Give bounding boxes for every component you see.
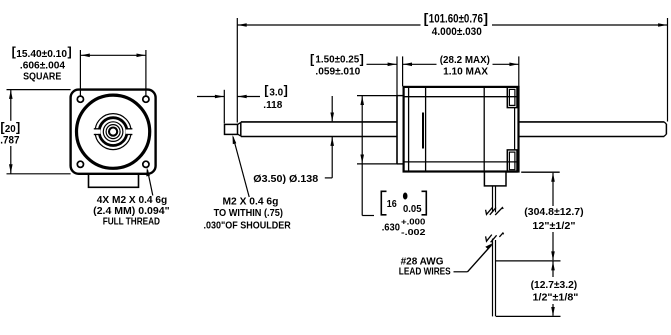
dim 20 extension line top [7, 89, 71, 91]
break mark upper right [495, 208, 503, 215]
svg-text:]: ] [360, 52, 364, 66]
dim 28.2 line left seg [403, 63, 437, 65]
svg-text:.787: .787 [0, 135, 19, 147]
lead wire right lower [495, 240, 497, 316]
dim 3.0 arrow line right [237, 96, 260, 98]
svg-text:M2 X 0.4 6g: M2 X 0.4 6g [223, 197, 279, 208]
wire end ref line [496, 315, 561, 317]
rear shaft chamfer top [664, 122, 666, 124]
svg-text:4.000±.030: 4.000±.030 [432, 26, 482, 38]
rear cover line [514, 108, 516, 150]
screw shoulder [240, 122, 242, 136]
dim dia16 extension bottom [357, 163, 397, 165]
bearing ring bold [99, 118, 127, 146]
ring gap right mask [126, 130, 133, 134]
dim 20 line [10, 90, 12, 121]
svg-text:FULL THREAD: FULL THREAD [103, 217, 160, 228]
lead wire right upper [495, 186, 497, 212]
svg-text:16: 16 [387, 199, 397, 210]
break mark lower left [486, 235, 492, 242]
front plate line [408, 87, 410, 172]
dim dia3.5 lower line [331, 137, 333, 178]
dim 3.0 extension left [223, 90, 225, 124]
gap tick right bottom [126, 134, 132, 136]
dim 12.7 line upper [552, 262, 554, 278]
tip shoulder chamfer bottom [238, 134, 241, 136]
dim 101.6 arrow right [658, 23, 667, 27]
pilot boss face [396, 96, 398, 164]
lead screw top edge [241, 121, 397, 123]
dim 1.50 extension mount face [402, 56, 404, 86]
rear block top outer [507, 87, 517, 107]
dim 304.8 arrow up [551, 173, 555, 182]
svg-text:]: ] [284, 83, 288, 97]
dim 28.2 line right seg [493, 63, 519, 65]
pilot boss top [397, 95, 404, 97]
svg-text:#28 AWG: #28 AWG [401, 256, 444, 267]
svg-text:20: 20 [5, 124, 16, 135]
break mark upper left [486, 208, 493, 215]
dim 15.40 extension line left [79, 50, 81, 96]
leader lead wires arrowhead [485, 243, 493, 249]
rear block bottom inner [509, 152, 515, 170]
rear shaft bottom edge [519, 136, 665, 138]
svg-text:]: ] [16, 121, 20, 135]
svg-text:]: ] [483, 10, 488, 26]
svg-text:]: ] [68, 45, 72, 59]
dim 1.50 extension boss face [396, 56, 398, 95]
pilot boss bottom [397, 163, 404, 165]
rear shaft end [665, 124, 667, 134]
mounting hole top-left [77, 96, 83, 102]
svg-text:SQUARE: SQUARE [23, 71, 61, 82]
leader lead wires diagonal [468, 245, 492, 272]
svg-text:4X M2 X 0.4 6g: 4X M2 X 0.4 6g [97, 195, 167, 206]
dim 12.7 arrow down [551, 307, 555, 316]
gap tick right top [126, 128, 132, 130]
svg-text:1/2"±1/8": 1/2"±1/8" [533, 292, 579, 303]
svg-text:.030"OF SHOULDER: .030"OF SHOULDER [204, 220, 292, 231]
dim 15.40 arrow left [81, 54, 90, 58]
dim 28.2 arrow left [403, 63, 412, 67]
gap tick left top [94, 128, 100, 130]
dim 3.0 arrow head left [215, 95, 224, 99]
svg-text:(2.4 MM) 0.094": (2.4 MM) 0.094" [93, 206, 170, 217]
dim 1.50 arrow head [388, 63, 397, 67]
svg-text:.630: .630 [382, 222, 401, 233]
rear block top inner [509, 89, 515, 105]
dim 20 arrow bottom [9, 164, 13, 173]
svg-text:+.000: +.000 [401, 217, 426, 227]
rear block bottom outer [507, 150, 517, 172]
dim 20 extension line bottom [7, 173, 71, 175]
lead screw bottom edge [241, 136, 397, 138]
flange boundary line [425, 87, 427, 172]
leader lead wires horizontal [454, 271, 468, 273]
dim dia3.5 upper line [331, 96, 333, 121]
dim 101.6 arrow left [238, 23, 247, 27]
break mark lower right [499, 233, 503, 237]
lead wire left lower [492, 239, 494, 317]
svg-text:0.05: 0.05 [403, 204, 422, 215]
svg-text:12"±1/2": 12"±1/2" [532, 221, 575, 232]
dim dia16 arrow down [360, 155, 364, 164]
dim 304.8 ref line [521, 171, 560, 173]
svg-text:1.50±0.25: 1.50±0.25 [315, 55, 359, 66]
svg-text:TO WITHIN (.75): TO WITHIN (.75) [214, 208, 283, 219]
shaft circle [109, 128, 117, 136]
tip shoulder chamfer top [238, 122, 241, 124]
dim dia16 arrow up [360, 96, 364, 105]
motor body outline [404, 87, 519, 172]
svg-text:LEAD WIRES: LEAD WIRES [399, 267, 451, 278]
lead screw M2 tip [225, 124, 238, 134]
body inner line top [404, 96, 519, 98]
motor body circle [77, 95, 150, 168]
svg-text:.606±.004: .606±.004 [20, 61, 65, 72]
label 0 upper tolerance [403, 193, 408, 200]
wire strip ref line [496, 260, 561, 262]
flange square [71, 90, 156, 174]
svg-text:3.0: 3.0 [269, 87, 283, 98]
dim 12.7 arrow up [551, 262, 555, 271]
dim 101.6 extension left [236, 18, 238, 123]
leader M2 arrowhead [233, 135, 237, 144]
ring r7 [106, 125, 120, 139]
dim dia3.5 arrow down [330, 113, 334, 122]
mounting hole bottom-right [143, 161, 149, 167]
dim 101.6 extension right [667, 18, 669, 122]
mounting hole bottom-left [77, 161, 83, 167]
leader M2 tip [233, 137, 249, 197]
dim 15.40 arrow right [137, 54, 146, 58]
mounting hole top-right [143, 96, 149, 102]
dim 12.7 line lower [552, 304, 554, 316]
body inner line bottom [404, 161, 519, 163]
svg-text:.059±.010: .059±.010 [315, 67, 360, 78]
dim dia16 line [361, 96, 363, 216]
dim 3.0 arrow head right [238, 95, 247, 99]
dim 28.2 extension right [518, 56, 520, 86]
bottom terminal block [89, 174, 139, 188]
svg-text:(304.8±12.7): (304.8±12.7) [524, 207, 583, 218]
svg-text:-.002: -.002 [401, 227, 426, 237]
flange bold segment [422, 113, 424, 149]
gap tick left bottom [94, 134, 100, 136]
dim 1.50 arrow line [367, 63, 398, 65]
svg-text:(12.7±3.2): (12.7±3.2) [531, 280, 578, 291]
dim 3.0 arrow line left [197, 96, 224, 98]
wire connector housing [484, 172, 506, 186]
ring r10 [103, 122, 123, 142]
dim 304.8 line lower [552, 232, 554, 260]
svg-text:15.40±0.10: 15.40±0.10 [16, 49, 67, 60]
leader 4X M2 [148, 170, 153, 196]
leader 4X M2 arrowhead [146, 167, 150, 176]
dim dia16 tick to text [362, 215, 374, 217]
dim 304.8 line upper [552, 173, 554, 206]
lead wire left upper [492, 186, 494, 212]
dim dia3.5 arrow up [330, 137, 334, 146]
svg-text:101.60±0.76: 101.60±0.76 [429, 14, 483, 26]
dim 15.40 extension line right [145, 50, 147, 96]
svg-text:1.10 MAX: 1.10 MAX [443, 67, 488, 78]
label 16 tolerance block bracket right [422, 191, 427, 215]
dim 101.6 line left seg [237, 24, 420, 26]
dim dia3.5 elbow [325, 177, 332, 179]
pilot ring thin [95, 114, 131, 150]
rear shaft chamfer bottom [664, 134, 666, 136]
dim 28.2 arrow right [509, 63, 518, 67]
svg-text:(28.2 MAX): (28.2 MAX) [440, 55, 490, 66]
ring gap left mask [94, 130, 101, 134]
rear boundary line [483, 87, 485, 172]
dim dia16 extension top [357, 95, 397, 97]
rear shaft top edge [519, 121, 665, 123]
dim 101.6 line right seg [492, 24, 668, 26]
svg-text:.118: .118 [263, 100, 282, 111]
dim 15.40 line [80, 54, 145, 56]
svg-text:Ø3.50) Ø.138: Ø3.50) Ø.138 [253, 174, 318, 185]
dim 20 arrow top [9, 90, 13, 99]
dim 304.8 arrow down [551, 251, 555, 260]
label 16 tolerance block bracket left [381, 191, 386, 215]
